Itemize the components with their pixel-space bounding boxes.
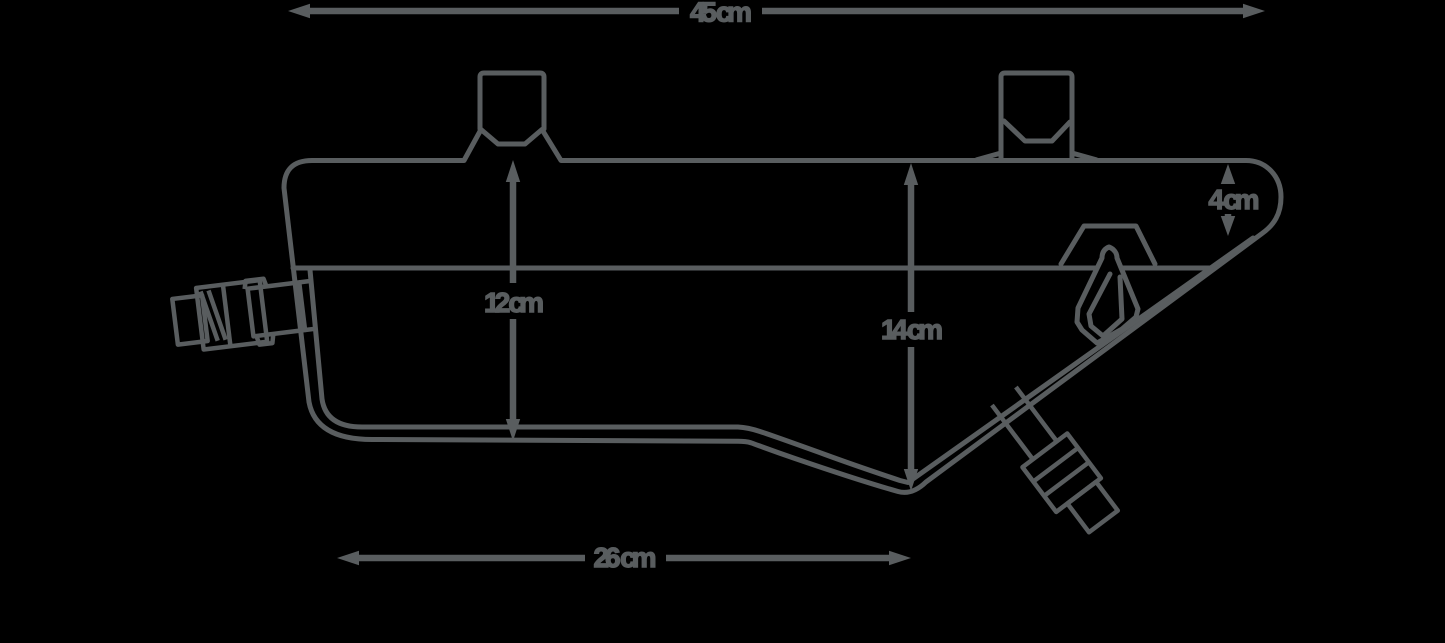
svg-text:12 cm: 12 cm	[484, 287, 544, 318]
svg-text:14 cm: 14 cm	[881, 314, 943, 345]
svg-text:45 cm: 45 cm	[690, 0, 752, 28]
svg-text:4 cm: 4 cm	[1209, 184, 1260, 215]
svg-text:26 cm: 26 cm	[594, 542, 657, 573]
